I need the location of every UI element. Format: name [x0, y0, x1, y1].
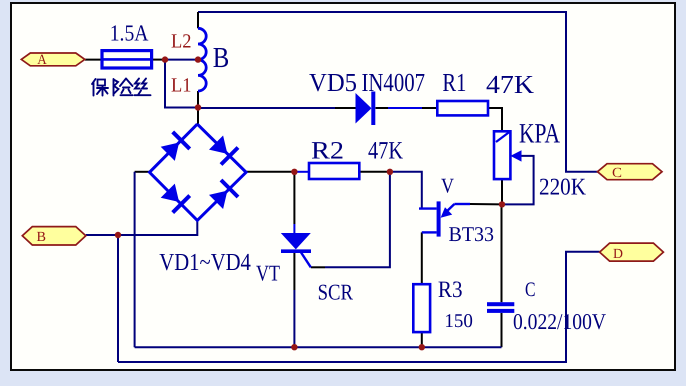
- resistor R2: [309, 163, 359, 179]
- wire: L1 bottom lead to node F: [197, 91, 199, 108]
- junction SCR cathode rail: [291, 344, 297, 350]
- junction node H: [291, 169, 297, 175]
- wire: node E down and over to node F: [165, 60, 198, 108]
- junction node J: [387, 169, 393, 175]
- svg-text:D: D: [613, 247, 623, 262]
- wire: bottom rail 1: [135, 346, 502, 348]
- bridge diode D-bottomright: [209, 180, 238, 209]
- junction node G: [115, 232, 121, 238]
- terminal A: [21, 52, 85, 68]
- svg-text:A: A: [37, 52, 47, 68]
- wire: node F to VD5 anode: [198, 107, 335, 109]
- wire: fuse to node E: [152, 59, 165, 61]
- wire: bridge bottom vertex to node G: [118, 220, 197, 235]
- svg-text:C: C: [612, 166, 622, 181]
- potentiometer KPA: [494, 131, 522, 179]
- svg-text:VT: VT: [256, 261, 280, 286]
- svg-text:L2: L2: [171, 31, 192, 53]
- wire: node G down to lower rail: [117, 235, 119, 362]
- bridge rectifier VD1~VD4 diamond: [150, 124, 247, 220]
- svg-text:B: B: [37, 230, 47, 245]
- wire: node F to bridge top vertex: [197, 108, 199, 125]
- wire: SCR gate run to node J: [311, 266, 325, 268]
- wire: R1 to KPA top: [488, 108, 502, 131]
- wire: node H to R2 left lead: [294, 171, 309, 173]
- wire: KPA bottom lead to node K: [501, 179, 503, 204]
- wire: bridge right vertex to node H: [246, 171, 294, 173]
- transformer B winding (L2 top / L1 bottom): [198, 28, 206, 91]
- svg-text:150: 150: [444, 311, 473, 332]
- wire: bottom rail 2 to terminal D: [118, 252, 600, 362]
- svg-text:L1: L1: [171, 74, 192, 96]
- svg-text:R2: R2: [311, 138, 344, 165]
- svg-text:1.5A: 1.5A: [110, 20, 149, 45]
- svg-text:VD5: VD5: [309, 68, 357, 97]
- transistor V (UJT): [419, 201, 470, 236]
- terminal D: [600, 243, 664, 262]
- wire: node J to UJT upper-left lead: [390, 172, 422, 209]
- svg-text:V: V: [441, 174, 454, 198]
- svg-text:47K: 47K: [368, 138, 403, 165]
- bridge diode D-topright: [209, 136, 238, 165]
- wire: terminal A to fuse: [85, 59, 102, 61]
- svg-text:BT33: BT33: [449, 222, 495, 246]
- junction node E: [162, 56, 168, 62]
- wire: VD5 cathode to R1: [376, 107, 389, 109]
- fuse name 保险丝 (drawn strokes): [92, 79, 151, 96]
- svg-text:IN4007: IN4007: [362, 68, 426, 97]
- resistor R3: [413, 284, 430, 332]
- wire: DC minus vertical x=134.6: [134, 172, 136, 347]
- wire: terminal B to node G: [86, 234, 135, 236]
- svg-text:C: C: [525, 279, 536, 301]
- junction transformer tap: [195, 56, 201, 62]
- diode VD5: [356, 92, 374, 126]
- fuse FU 1.5A: [102, 51, 152, 68]
- terminal C: [598, 164, 663, 181]
- wire: UJT emitter lead to node K: [470, 203, 502, 205]
- bridge diode D-bottomleft: [161, 184, 190, 213]
- terminal B: [22, 227, 86, 246]
- capacitor C: [487, 302, 514, 313]
- svg-text:KPA: KPA: [519, 119, 561, 150]
- thyristor VT (SCR): [281, 233, 311, 267]
- svg-text:VD1~VD4: VD1~VD4: [159, 249, 251, 276]
- junction R3 rail: [419, 344, 425, 350]
- wire: R3 bottom lead: [421, 332, 423, 347]
- svg-text:SCR: SCR: [318, 280, 353, 305]
- svg-text:R1: R1: [442, 68, 466, 97]
- svg-text:220K: 220K: [539, 175, 587, 201]
- wire: SCR anode from node H: [293, 172, 295, 224]
- resistor R1: [437, 101, 488, 115]
- wire: bridge left vertex stub: [135, 171, 150, 173]
- wire: capacitor bottom lead: [501, 313, 503, 347]
- wire: KPA wiper return loop: [502, 156, 534, 205]
- svg-text:B: B: [213, 42, 230, 74]
- svg-text:47K: 47K: [486, 70, 534, 99]
- wire: SCR cathode to bottom rail: [293, 252, 295, 290]
- wire: L2 top lead: [197, 12, 199, 28]
- wire: top rail from L2 top to terminal C: [198, 12, 598, 172]
- wire: UJT lower lead down to R3: [421, 232, 423, 284]
- junction node F: [195, 104, 201, 110]
- wire: R2 right lead to node J: [359, 171, 390, 173]
- bridge diode D-topleft: [161, 132, 190, 161]
- svg-text:0.022/100V: 0.022/100V: [513, 309, 606, 334]
- wire: node K down to capacitor C: [501, 204, 503, 302]
- wire: node E to transformer tap: [165, 59, 198, 61]
- svg-text:R3: R3: [438, 277, 463, 303]
- junction node K: [499, 201, 505, 207]
